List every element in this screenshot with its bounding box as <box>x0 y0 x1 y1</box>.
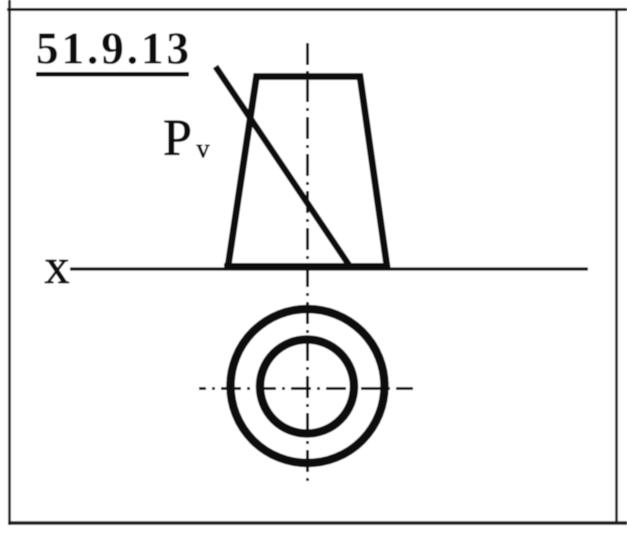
cutting plane line Pv <box>216 67 350 266</box>
svg-text:v: v <box>197 134 210 163</box>
outer circle top view <box>231 309 385 463</box>
frame right line <box>615 8 618 523</box>
vertical centerline <box>306 43 309 485</box>
horizontal centerline <box>199 387 413 390</box>
svg-text:51.9.13: 51.9.13 <box>36 24 192 74</box>
svg-text:x: x <box>45 238 70 294</box>
frame left line <box>8 0 11 525</box>
trapezoid thick bottom edge <box>224 263 390 270</box>
frame top line <box>7 8 627 11</box>
inner circle top view <box>260 340 354 434</box>
cone front view trapezoid <box>228 77 387 267</box>
frame bottom line <box>8 521 627 525</box>
svg-text:P: P <box>163 110 192 167</box>
x-axis line <box>70 267 588 270</box>
label Pv <box>163 110 210 167</box>
title 51.9.13 <box>36 24 192 77</box>
